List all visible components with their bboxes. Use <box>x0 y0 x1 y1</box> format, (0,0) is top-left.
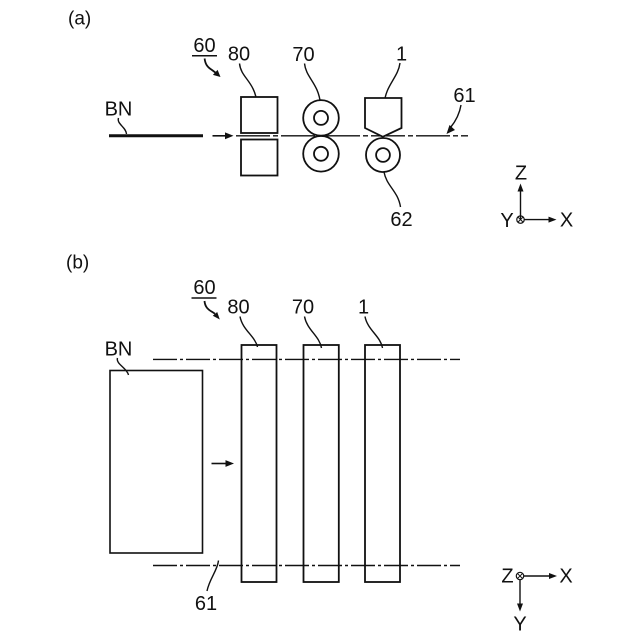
leader 1 (b) <box>365 317 383 349</box>
X axis arrow (b) <box>524 575 551 577</box>
svg-text:80: 80 <box>228 44 250 66</box>
svg-text:Y: Y <box>513 614 526 636</box>
pass line top (b) dash-dot <box>153 358 460 360</box>
BN block (b) <box>110 371 203 554</box>
leader 1 (a) <box>384 63 400 104</box>
origin symbol Z into page (b) <box>516 572 523 579</box>
svg-text:(a): (a) <box>68 9 91 30</box>
leader 80 (b) <box>240 317 258 348</box>
Y axis arrow (b) <box>519 580 521 605</box>
Z axis arrow (a) <box>520 190 522 220</box>
svg-text:(b): (b) <box>66 253 89 274</box>
flow arrow (b) <box>212 460 235 467</box>
svg-text:70: 70 <box>292 297 314 319</box>
BN sheet (a) thick line <box>109 134 203 137</box>
roll unit 1 (b) <box>365 345 400 582</box>
svg-text:80: 80 <box>227 297 249 319</box>
roll unit 70 (b) <box>304 345 339 582</box>
svg-text:X: X <box>559 566 572 588</box>
svg-text:60: 60 <box>193 35 215 57</box>
X axis arrow (a) <box>524 219 550 221</box>
svg-text:Z: Z <box>501 566 513 588</box>
leader 70 (a) <box>305 64 321 105</box>
svg-text:62: 62 <box>390 209 412 231</box>
arrow from 60 (a) <box>205 59 221 78</box>
svg-text:BN: BN <box>105 339 133 361</box>
svg-text:X: X <box>560 210 573 232</box>
die 1 (a) pentagon <box>365 98 402 137</box>
arrow from 60 (b) <box>205 301 220 320</box>
roller 70 lower (a) <box>303 136 339 172</box>
roll unit 80 (b) <box>242 345 277 582</box>
pass line bottom (b) dash-dot <box>153 565 460 567</box>
pass line (a) dash-dot <box>236 135 468 137</box>
origin symbol Y into page (a) <box>517 216 524 223</box>
square 80 upper (a) <box>241 97 278 133</box>
leader BN (a) <box>118 118 126 134</box>
axes (b) <box>501 566 572 636</box>
svg-text:61: 61 <box>453 85 475 107</box>
svg-text:1: 1 <box>396 44 407 66</box>
roller 62 (a) <box>366 138 400 172</box>
svg-text:Z: Z <box>515 163 527 185</box>
svg-text:BN: BN <box>105 99 133 121</box>
leader 62 (a) <box>384 172 401 207</box>
axes (a) <box>500 163 573 232</box>
square 80 lower (a) <box>241 140 278 176</box>
leader 80 (a) <box>240 64 258 104</box>
flow arrow (a) <box>213 132 234 139</box>
label 60 (a) underlined <box>192 35 217 57</box>
leader 61 (b) <box>207 561 219 592</box>
label 60 (b) underlined <box>192 277 217 299</box>
svg-text:61: 61 <box>195 593 217 615</box>
svg-text:Y: Y <box>500 210 513 232</box>
svg-text:70: 70 <box>292 44 314 66</box>
leader BN (b) <box>117 358 128 375</box>
roller 70 upper (a) <box>303 100 339 136</box>
leader arrow 61 (a) <box>447 105 462 134</box>
svg-text:1: 1 <box>358 297 369 319</box>
leader 70 (b) <box>305 317 322 349</box>
svg-text:60: 60 <box>193 277 215 299</box>
